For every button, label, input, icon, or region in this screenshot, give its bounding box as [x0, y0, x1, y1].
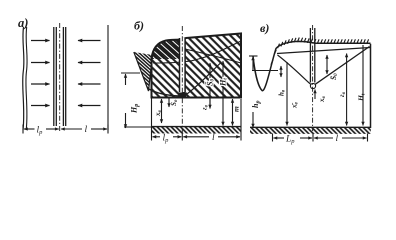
right boundary line [107, 25, 109, 130]
svg-text:Нр: Нр [130, 104, 141, 114]
svg-text:хв: хв [154, 110, 163, 118]
svg-text:Нt: Нt [357, 93, 367, 102]
Ht line v [362, 45, 364, 126]
dimension l v [314, 137, 333, 139]
xb dimension v [314, 90, 316, 100]
dimension l segment [61, 128, 82, 130]
svg-text:hр: hр [251, 101, 262, 108]
surface hatch ticks [271, 38, 369, 65]
pool vertex blob [178, 93, 187, 99]
svg-text:гв: гв [338, 91, 347, 97]
Hp dimension [125, 74, 127, 85]
So small dimension [168, 98, 170, 107]
svg-text:l: l [85, 125, 88, 135]
svg-text:m: m [232, 106, 241, 112]
svg-text:Sо: Sо [170, 99, 179, 106]
plate surface level line [252, 70, 278, 72]
svg-text:гв: гв [201, 104, 210, 110]
S0 line in hatch [209, 63, 211, 109]
electrode channel v [309, 28, 311, 83]
darker shoulder hatch [152, 40, 183, 59]
right edge v [370, 44, 372, 128]
electrode channel [180, 38, 185, 92]
hp dimension [252, 57, 254, 71]
center dash-dot axis [59, 23, 61, 133]
extension lines to dim b [151, 98, 153, 141]
right arrows [78, 40, 101, 42]
ground line extension left [124, 126, 152, 128]
axis dash-dot b [181, 26, 183, 133]
block hatched body [152, 34, 242, 98]
dimension l b [183, 136, 209, 138]
svg-text:Lр: Lр [285, 135, 295, 146]
S0 dimension v [326, 55, 328, 74]
svg-text:hв: hв [278, 89, 287, 96]
dimension lp b [153, 136, 161, 138]
chord pool surface line [277, 48, 370, 54]
hp reference tick [249, 55, 258, 57]
gb line v [346, 54, 348, 126]
svg-text:l: l [336, 134, 339, 144]
crater wedge (hatched V funnel) [134, 52, 153, 91]
dimension line a: ticks [22, 125, 24, 134]
plate double lines left pair [53, 27, 55, 126]
svg-text:l: l [212, 133, 215, 143]
svg-text:в): в) [260, 21, 269, 35]
svg-text:lр: lр [37, 126, 44, 137]
gb dimension [209, 98, 211, 109]
axis dash-dot v [312, 25, 314, 131]
wavy left edge (double wavy line) [23, 27, 24, 130]
surface curve with crater valley [253, 41, 371, 90]
line to ground at 287 [286, 62, 288, 126]
Hp reference tick [121, 72, 140, 74]
extension lines dim v [272, 134, 274, 142]
xb dimension [161, 99, 163, 123]
left arrows [31, 40, 50, 42]
dimension lp segment [24, 128, 35, 130]
svg-text:б): б) [134, 19, 144, 33]
internal curve falling [185, 49, 241, 63]
svg-text:хв: хв [318, 96, 327, 104]
svg-text:lр: lр [163, 134, 170, 145]
svg-text:х̄в: х̄в [291, 102, 300, 110]
internal curve rising [153, 41, 241, 63]
pool V right branch to corner [315, 47, 369, 85]
Ht line [222, 61, 224, 126]
dimension Lp v [274, 137, 285, 139]
ground strip v [250, 126, 371, 128]
pool boundary bottom arc [149, 89, 179, 96]
pool boundary right branch [185, 63, 221, 96]
vertex circle [310, 83, 315, 88]
ground strip b [152, 126, 242, 128]
pool V left branch [278, 55, 311, 84]
hb small dimension [280, 66, 282, 77]
m dimension [232, 99, 234, 126]
plate double lines right pair [62, 27, 64, 126]
